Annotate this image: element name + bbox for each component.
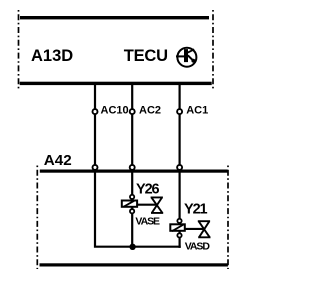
pin A42 wire1 [93, 165, 98, 170]
svg-text:AC2: AC2 [139, 104, 161, 116]
pin A42 wire2 [130, 165, 135, 170]
wire Y26 coil to nozzle [138, 204, 157, 206]
svg-text:AC1: AC1 [186, 104, 208, 116]
module A13D top bus bar [20, 16, 209, 19]
wire AC2 vertical [131, 84, 133, 247]
svg-text:AC10: AC10 [101, 104, 129, 116]
module A13D left boundary (dash-dot) [18, 10, 20, 91]
svg-text:VASD: VASD [185, 241, 211, 253]
svg-text:A13D: A13D [31, 47, 73, 65]
module A13D right boundary (dash-dot) [212, 10, 214, 91]
module A13D bottom bus bar [20, 82, 212, 85]
Knorr-Bremse logo [176, 48, 196, 67]
solenoid valve Y21 coil [170, 219, 185, 238]
svg-text:Y26: Y26 [136, 181, 160, 197]
valve Y26 nozzle [151, 197, 164, 213]
module A42 top bus bar [40, 170, 228, 173]
module A42 bottom bus bar [40, 263, 228, 266]
valve Y21 nozzle [198, 221, 211, 237]
wire AC10 vertical + common return horizontal [95, 84, 181, 247]
module A42 right boundary (dash-dot) [227, 166, 229, 270]
pin A42 wire3 [177, 165, 182, 170]
module A42 left boundary (dash-dot) [36, 166, 38, 270]
svg-text:VASE: VASE [135, 216, 160, 228]
pin AC2 [130, 109, 135, 114]
pin AC1 [177, 109, 182, 114]
junction dot [129, 244, 135, 250]
svg-text:A42: A42 [44, 152, 72, 169]
wire Y21 coil to nozzle [185, 228, 204, 230]
wire AC1 vertical [179, 84, 181, 248]
pin AC10 [93, 109, 98, 114]
svg-text:Y21: Y21 [184, 201, 208, 217]
solenoid valve Y26 coil [122, 195, 137, 214]
svg-text:TECU: TECU [124, 47, 168, 65]
